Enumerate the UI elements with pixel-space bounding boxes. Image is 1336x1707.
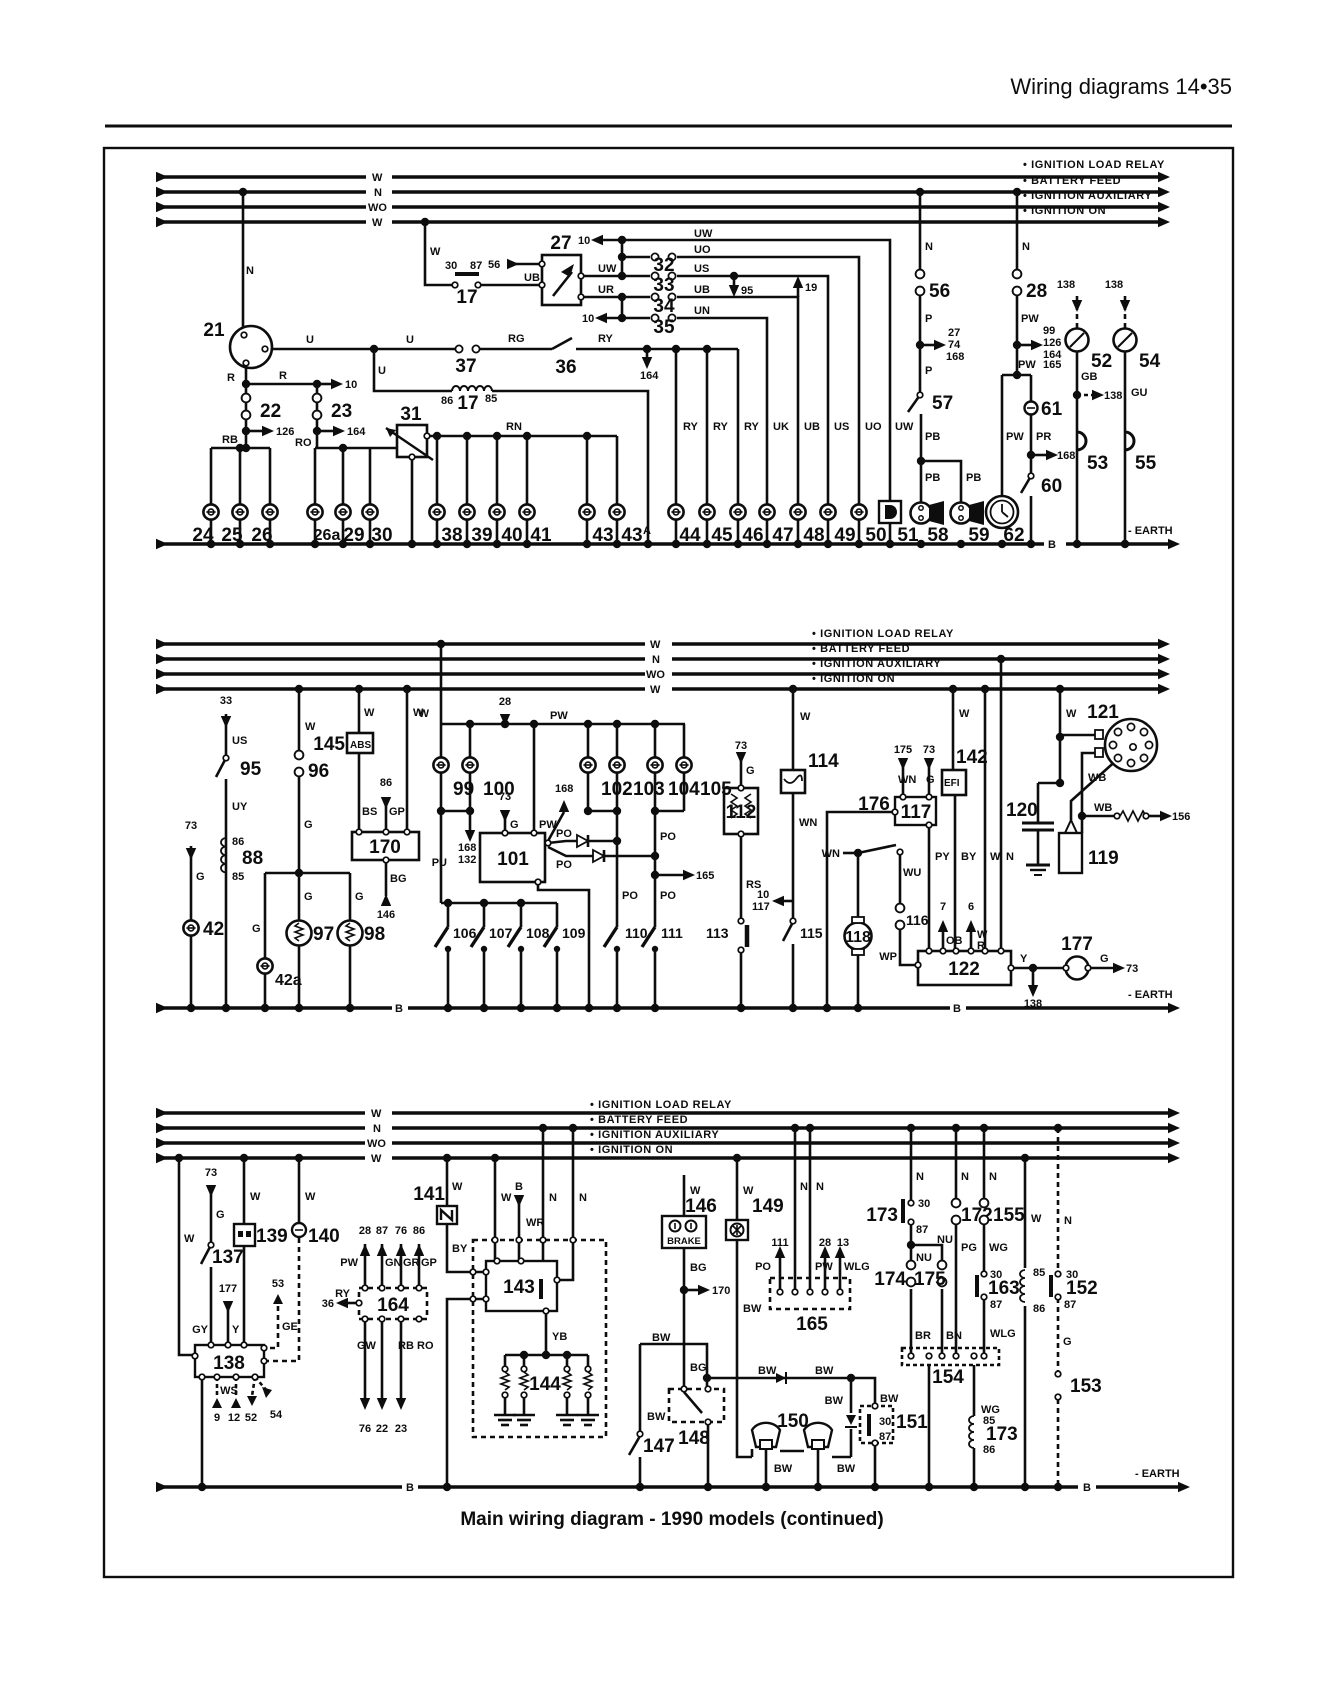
svg-text:118: 118 xyxy=(845,929,871,946)
connector 154 dashed box xyxy=(902,1348,999,1365)
switch 111 xyxy=(642,927,655,947)
svg-text:109: 109 xyxy=(562,925,586,941)
svg-text:138: 138 xyxy=(1105,279,1123,291)
wire GY 137 to 138 xyxy=(210,1267,213,1345)
arrow 170 stub xyxy=(684,1289,698,1292)
svg-text:• IGNITION ON: • IGNITION ON xyxy=(812,673,895,685)
svg-text:86: 86 xyxy=(232,836,244,848)
switch 60 blade xyxy=(1021,476,1031,493)
wire W to sensor 114 xyxy=(792,689,795,770)
svg-text:BW: BW xyxy=(815,1365,834,1377)
resistor 112 chain xyxy=(740,758,743,788)
svg-text:149: 149 xyxy=(752,1196,784,1217)
wire W to ABS 145 to unit 170 xyxy=(358,689,361,733)
vertical link rows UW-US xyxy=(621,240,624,276)
wire W to relay 139 to 138 xyxy=(243,1158,246,1224)
svg-text:• IGNITION AUXILIARY: • IGNITION AUXILIARY xyxy=(1023,190,1152,202)
svg-text:43: 43 xyxy=(592,525,613,546)
svg-text:86: 86 xyxy=(1033,1303,1045,1315)
wire N fuse 56 chain xyxy=(919,192,922,274)
wire N fuse 28 chain xyxy=(1016,192,1019,274)
wire GB 52 to 53 to earth xyxy=(1076,351,1079,544)
svg-text:114: 114 xyxy=(808,751,839,772)
svg-text:107: 107 xyxy=(489,925,513,941)
band1 earth line xyxy=(156,542,1044,546)
wire UY 95 to coil 88 to earth xyxy=(225,779,228,1008)
svg-text:138: 138 xyxy=(1057,279,1075,291)
ignition switch 21 xyxy=(230,326,272,368)
svg-text:B: B xyxy=(406,1482,414,1494)
svg-text:164: 164 xyxy=(347,426,366,438)
svg-text:GW: GW xyxy=(357,1340,377,1352)
svg-text:RY: RY xyxy=(713,421,729,433)
svg-text:154: 154 xyxy=(932,1367,964,1388)
fuse 155 xyxy=(980,1199,989,1225)
alternator 177 xyxy=(1066,957,1089,980)
arrow 27/74/168 stub xyxy=(920,344,934,347)
row UW xyxy=(603,240,890,544)
svg-text:174: 174 xyxy=(874,1269,906,1290)
sensor 114 box xyxy=(781,770,805,793)
svg-text:PW: PW xyxy=(815,1261,833,1273)
svg-text:WB: WB xyxy=(1088,772,1106,784)
svg-text:175: 175 xyxy=(914,1269,946,1290)
wire N fuse 172 PG xyxy=(955,1128,958,1203)
svg-text:N: N xyxy=(373,1123,381,1135)
svg-text:UO: UO xyxy=(694,244,711,256)
switch 17 labels xyxy=(452,282,458,288)
switch 153 xyxy=(1055,1371,1061,1377)
relay 27 blade xyxy=(553,272,572,296)
relay 151 xyxy=(872,1403,878,1409)
svg-text:52: 52 xyxy=(245,1412,257,1424)
svg-text:164: 164 xyxy=(377,1295,409,1316)
resistors 144 xyxy=(502,1366,508,1372)
svg-text:86: 86 xyxy=(441,395,453,407)
rotor line xyxy=(1071,749,1129,820)
unit 117 box xyxy=(895,797,936,825)
svg-text:- EARTH: - EARTH xyxy=(1128,989,1173,1001)
wire 148 to earth xyxy=(707,1422,710,1487)
svg-text:G: G xyxy=(216,1209,225,1221)
svg-text:170: 170 xyxy=(369,837,401,858)
ground symbols 144 xyxy=(494,1414,516,1417)
svg-text:WLG: WLG xyxy=(990,1328,1016,1340)
svg-text:132: 132 xyxy=(458,854,476,866)
svg-text:28: 28 xyxy=(499,696,511,708)
svg-text:PO: PO xyxy=(660,831,676,843)
row UN xyxy=(607,317,650,320)
wire N bus to switch 21 xyxy=(242,192,245,327)
svg-text:W: W xyxy=(250,1191,261,1203)
svg-text:RB: RB xyxy=(398,1340,414,1352)
wire G 177 arrow 73 xyxy=(1088,967,1113,970)
wire U branch down to coil 17 xyxy=(374,349,452,391)
unit 101 box xyxy=(480,833,545,882)
svg-text:30: 30 xyxy=(918,1198,930,1210)
svg-text:BY: BY xyxy=(961,851,977,863)
wire WB resistor 156 xyxy=(1082,815,1116,818)
svg-text:UK: UK xyxy=(773,421,789,433)
band2 earth dots xyxy=(187,1004,195,1012)
svg-text:ABS: ABS xyxy=(350,740,371,751)
row US xyxy=(622,275,650,278)
wire W bus to 122 xyxy=(984,689,987,951)
ABS unit 145 xyxy=(347,733,373,753)
svg-text:BW: BW xyxy=(652,1332,671,1344)
svg-text:• IGNITION LOAD RELAY: • IGNITION LOAD RELAY xyxy=(590,1099,732,1111)
branch NU to 175 xyxy=(911,1245,942,1264)
svg-text:• BATTERY FEED: • BATTERY FEED xyxy=(590,1114,688,1126)
diode line BW xyxy=(707,1378,875,1406)
svg-text:35: 35 xyxy=(653,317,675,338)
fuse 22 wire RB xyxy=(245,384,248,448)
svg-text:W: W xyxy=(305,1191,316,1203)
svg-text:RY: RY xyxy=(598,333,614,345)
svg-text:44: 44 xyxy=(679,525,701,546)
wire PR lamp 61 switch 60 xyxy=(1030,375,1033,402)
band2 bus arrows xyxy=(156,639,168,649)
bulb earth stubs xyxy=(765,1447,768,1487)
arrow 165 xyxy=(683,870,695,880)
svg-text:• IGNITION ON: • IGNITION ON xyxy=(590,1144,673,1156)
diode 2 xyxy=(846,1415,856,1425)
wire W to relay 141 xyxy=(446,1158,449,1206)
svg-text:WS: WS xyxy=(220,1385,238,1397)
svg-text:G: G xyxy=(1063,1336,1072,1348)
motor 118 xyxy=(845,923,872,950)
svg-text:30: 30 xyxy=(445,260,457,272)
wire BN 175 to 154 xyxy=(941,1289,944,1356)
101 arrow 168 xyxy=(548,812,564,841)
lamp 42a xyxy=(257,958,272,973)
clock 62 xyxy=(986,496,1018,528)
svg-text:115: 115 xyxy=(800,925,823,941)
lamp 52 chain dashed 138 xyxy=(1076,296,1079,328)
row UB xyxy=(622,296,650,299)
svg-text:N: N xyxy=(549,1192,557,1204)
band3 earth dots xyxy=(198,1483,206,1491)
svg-text:W: W xyxy=(1066,708,1077,720)
svg-text:PO: PO xyxy=(660,890,676,902)
svg-text:119: 119 xyxy=(1088,848,1119,869)
svg-text:BW: BW xyxy=(743,1303,762,1315)
lamps 24 25 26 xyxy=(203,504,218,519)
svg-text:W: W xyxy=(690,1185,701,1197)
heater 98 xyxy=(338,921,363,946)
unit 101 xyxy=(502,830,508,836)
EFI box 142 xyxy=(942,770,966,795)
lamp 54 chain dashed 138 xyxy=(1124,296,1127,328)
wire 147 to earth xyxy=(639,1457,642,1487)
arrow 95 xyxy=(729,285,739,297)
contact 113 xyxy=(738,918,744,924)
header rule xyxy=(105,125,1232,128)
svg-text:W: W xyxy=(1031,1213,1042,1225)
svg-text:95: 95 xyxy=(741,285,753,297)
dashed wire 140 to 138 xyxy=(264,1238,299,1361)
wire PO 104 to switch 111 xyxy=(654,811,657,927)
svg-text:R: R xyxy=(279,370,287,382)
fuses 32 33 34 35 xyxy=(651,253,675,260)
svg-text:30: 30 xyxy=(371,525,392,546)
svg-text:GP: GP xyxy=(421,1257,437,1269)
svg-text:49: 49 xyxy=(834,525,855,546)
svg-text:P: P xyxy=(925,313,932,325)
svg-text:137: 137 xyxy=(212,1247,244,1268)
svg-text:139: 139 xyxy=(256,1226,288,1247)
svg-text:BG: BG xyxy=(690,1262,707,1274)
resistor 31 arrow xyxy=(386,428,433,460)
svg-text:RO: RO xyxy=(417,1340,434,1352)
wire N2 to 143 xyxy=(557,1128,573,1280)
svg-text:26a: 26a xyxy=(314,527,341,544)
svg-text:W: W xyxy=(650,684,661,696)
arrow 95 stub xyxy=(733,276,736,285)
svg-text:58: 58 xyxy=(927,525,948,546)
fuse 116 xyxy=(896,904,905,930)
svg-text:G: G xyxy=(510,819,519,831)
wire 177 Y to 138 xyxy=(227,1301,230,1345)
svg-text:138: 138 xyxy=(213,1353,245,1374)
svg-text:27: 27 xyxy=(948,327,960,339)
switch 17 contact bar xyxy=(455,272,479,276)
svg-text:22: 22 xyxy=(260,401,281,422)
arrow 138 dashed stub xyxy=(1077,394,1092,397)
164 top arrows xyxy=(364,1244,367,1288)
ecu 122 xyxy=(915,962,921,968)
relay 151 bar xyxy=(867,1414,871,1436)
lamps 99 100 xyxy=(433,757,448,772)
band1 bus line N (battery feed) xyxy=(156,190,366,194)
fuse 56 xyxy=(916,270,925,296)
svg-text:W: W xyxy=(419,708,430,720)
arrow 126 stub xyxy=(246,430,262,433)
wires 175 73 into 117 xyxy=(902,766,905,797)
svg-text:42a: 42a xyxy=(275,972,302,989)
svg-text:B: B xyxy=(1048,539,1056,551)
svg-text:BW: BW xyxy=(758,1365,777,1377)
switch 137 blade xyxy=(201,1245,211,1264)
switch 60 xyxy=(1028,473,1034,479)
svg-text:G: G xyxy=(304,891,313,903)
svg-text:W: W xyxy=(800,711,811,723)
lamp 42 xyxy=(183,920,198,935)
switch 109 xyxy=(556,903,559,927)
wire BG 146 to relay 148 xyxy=(683,1248,686,1389)
svg-text:U: U xyxy=(378,365,386,377)
101 bottom out to earth xyxy=(538,882,589,1008)
svg-text:101: 101 xyxy=(497,849,529,870)
svg-text:PW: PW xyxy=(539,819,557,831)
svg-text:50: 50 xyxy=(865,525,886,546)
svg-text:105: 105 xyxy=(700,779,732,800)
wire BG 170 to 146 arrow xyxy=(385,860,388,896)
svg-text:19: 19 xyxy=(805,282,817,294)
wire W right to 170 xyxy=(406,689,409,832)
svg-text:147: 147 xyxy=(643,1436,675,1457)
svg-text:37: 37 xyxy=(455,356,476,377)
lamp 105 drop xyxy=(683,724,686,757)
wire 73 to 101 xyxy=(504,810,507,833)
wire 33 to switch 95 xyxy=(225,714,228,757)
svg-text:164: 164 xyxy=(640,370,659,382)
switch 57 blade xyxy=(908,395,920,412)
svg-text:23: 23 xyxy=(395,1423,407,1435)
band3 bus line W xyxy=(156,1111,365,1115)
svg-text:N: N xyxy=(374,187,382,199)
svg-text:WLG: WLG xyxy=(844,1261,870,1273)
wire WN 114 to switch 115 xyxy=(792,793,795,920)
wire BY 142 to 122 xyxy=(954,795,957,951)
band1 bus line W (ignition load relay) xyxy=(156,175,366,179)
165 arrows up xyxy=(779,1258,782,1292)
wire 73 to lamp 42 to earth xyxy=(190,846,193,1008)
svg-text:41: 41 xyxy=(530,525,552,546)
wire UW relay 27 to vertical xyxy=(581,275,622,278)
wire UR relay 27 down link xyxy=(581,296,622,299)
lamp 61 xyxy=(1025,402,1038,415)
connector 165 xyxy=(777,1289,783,1295)
svg-text:A: A xyxy=(643,525,651,537)
svg-text:W: W xyxy=(372,217,383,229)
svg-text:W: W xyxy=(990,851,1001,863)
svg-text:85: 85 xyxy=(485,393,497,405)
svg-text:26: 26 xyxy=(251,525,272,546)
svg-text:110: 110 xyxy=(625,925,648,941)
band3 earth line xyxy=(156,1485,402,1489)
svg-text:168: 168 xyxy=(1057,450,1075,462)
svg-text:NU: NU xyxy=(937,1234,953,1246)
arrow 168 132 xyxy=(465,830,475,842)
svg-text:BR: BR xyxy=(915,1330,931,1342)
svg-text:36: 36 xyxy=(322,1298,334,1310)
svg-text:140: 140 xyxy=(308,1226,340,1247)
svg-text:102: 102 xyxy=(601,779,633,800)
svg-text:• IGNITION AUXILIARY: • IGNITION AUXILIARY xyxy=(590,1129,719,1141)
band2 earth line xyxy=(156,1006,392,1010)
svg-text:RB: RB xyxy=(222,434,238,446)
horn 58 xyxy=(911,503,932,524)
arrow 99/126/164 stub xyxy=(1017,344,1031,347)
svg-text:38: 38 xyxy=(441,525,462,546)
wire B WR to 143 xyxy=(518,1199,521,1261)
wire WP 116 to 122 xyxy=(900,928,918,965)
svg-text:59: 59 xyxy=(968,525,989,546)
svg-text:N: N xyxy=(652,654,660,666)
svg-text:N: N xyxy=(989,1171,997,1183)
svg-text:N: N xyxy=(579,1192,587,1204)
motor 118 to earth xyxy=(857,951,860,1008)
svg-text:116: 116 xyxy=(906,912,929,928)
wire WU 176 to fuse 116 xyxy=(899,855,902,908)
svg-text:103: 103 xyxy=(633,779,665,800)
svg-text:PY: PY xyxy=(935,851,950,863)
svg-text:23: 23 xyxy=(331,401,352,422)
svg-text:21: 21 xyxy=(203,320,225,341)
svg-text:73: 73 xyxy=(499,791,511,803)
lamp bracket 24-26 xyxy=(211,447,270,450)
svg-text:87: 87 xyxy=(916,1224,928,1236)
link 173 chain xyxy=(910,1128,913,1202)
fuse 37 xyxy=(455,345,479,352)
relay 27 box xyxy=(542,255,581,305)
switch 147 blade xyxy=(629,1436,640,1455)
switch bracket 106-109 xyxy=(441,902,557,905)
dashed wire N 152 153 xyxy=(1057,1128,1060,1273)
relay 148 xyxy=(681,1386,687,1392)
wire WB coil 119 xyxy=(1082,753,1095,833)
svg-text:104: 104 xyxy=(668,779,700,800)
164 left arrow 36 xyxy=(348,1302,359,1305)
switch 107 xyxy=(483,903,486,927)
lamp 104 drop xyxy=(654,724,657,757)
svg-text:76: 76 xyxy=(395,1225,407,1237)
svg-text:46: 46 xyxy=(742,525,763,546)
coil 88 xyxy=(221,838,226,872)
band3 bus line W ignition on xyxy=(156,1156,365,1160)
svg-text:155: 155 xyxy=(993,1205,1025,1226)
arrow 164 drop xyxy=(646,349,649,357)
svg-text:87: 87 xyxy=(470,260,482,272)
svg-text:R: R xyxy=(227,372,235,384)
arrow 168 132 drop xyxy=(469,811,472,830)
svg-text:OB: OB xyxy=(946,935,963,947)
relay coil 17 xyxy=(452,386,492,391)
svg-text:G: G xyxy=(926,774,935,786)
wire G to lamp 97 xyxy=(298,873,301,1008)
svg-text:34: 34 xyxy=(653,296,675,317)
flasher 149 box xyxy=(726,1220,748,1240)
svg-text:17: 17 xyxy=(456,287,477,308)
distributor 121 xyxy=(1105,719,1157,771)
svg-text:99: 99 xyxy=(453,779,474,800)
svg-text:142: 142 xyxy=(956,747,988,768)
wire UB 17 to relay 27 xyxy=(481,284,542,287)
svg-text:N: N xyxy=(1064,1215,1072,1227)
svg-text:31: 31 xyxy=(400,404,422,425)
wire RN distribution xyxy=(427,435,617,438)
svg-text:GR: GR xyxy=(403,1257,420,1269)
144 bracket xyxy=(505,1354,588,1357)
svg-text:165: 165 xyxy=(696,870,714,882)
svg-text:165: 165 xyxy=(1043,359,1061,371)
wire W to brake unit 146 xyxy=(683,1175,686,1216)
wire PW to 101 xyxy=(533,724,536,833)
svg-text:G: G xyxy=(355,891,364,903)
arrow 19 stub xyxy=(797,288,800,297)
svg-text:U: U xyxy=(406,334,414,346)
svg-text:BRAKE: BRAKE xyxy=(667,1236,701,1247)
svg-text:76: 76 xyxy=(359,1423,371,1435)
svg-text:BY: BY xyxy=(452,1243,468,1255)
svg-text:42: 42 xyxy=(203,919,224,940)
svg-text:120: 120 xyxy=(1006,800,1038,821)
bracket PW PR xyxy=(1002,374,1031,377)
svg-text:87: 87 xyxy=(879,1431,891,1443)
svg-text:29: 29 xyxy=(343,525,364,546)
wire 143 to earth xyxy=(447,1299,486,1487)
dashed wire 53 to 138 xyxy=(264,1297,278,1348)
svg-text:17: 17 xyxy=(457,393,478,414)
svg-text:W: W xyxy=(501,1192,512,1204)
wire 113 to earth xyxy=(740,951,743,1008)
svg-text:Main wiring diagram - 1990 mod: Main wiring diagram - 1990 models (conti… xyxy=(460,1509,883,1530)
svg-text:36: 36 xyxy=(555,357,576,378)
svg-text:WP: WP xyxy=(879,951,897,963)
svg-text:UR: UR xyxy=(598,284,614,296)
wire RS 112 to 113 xyxy=(740,834,743,920)
